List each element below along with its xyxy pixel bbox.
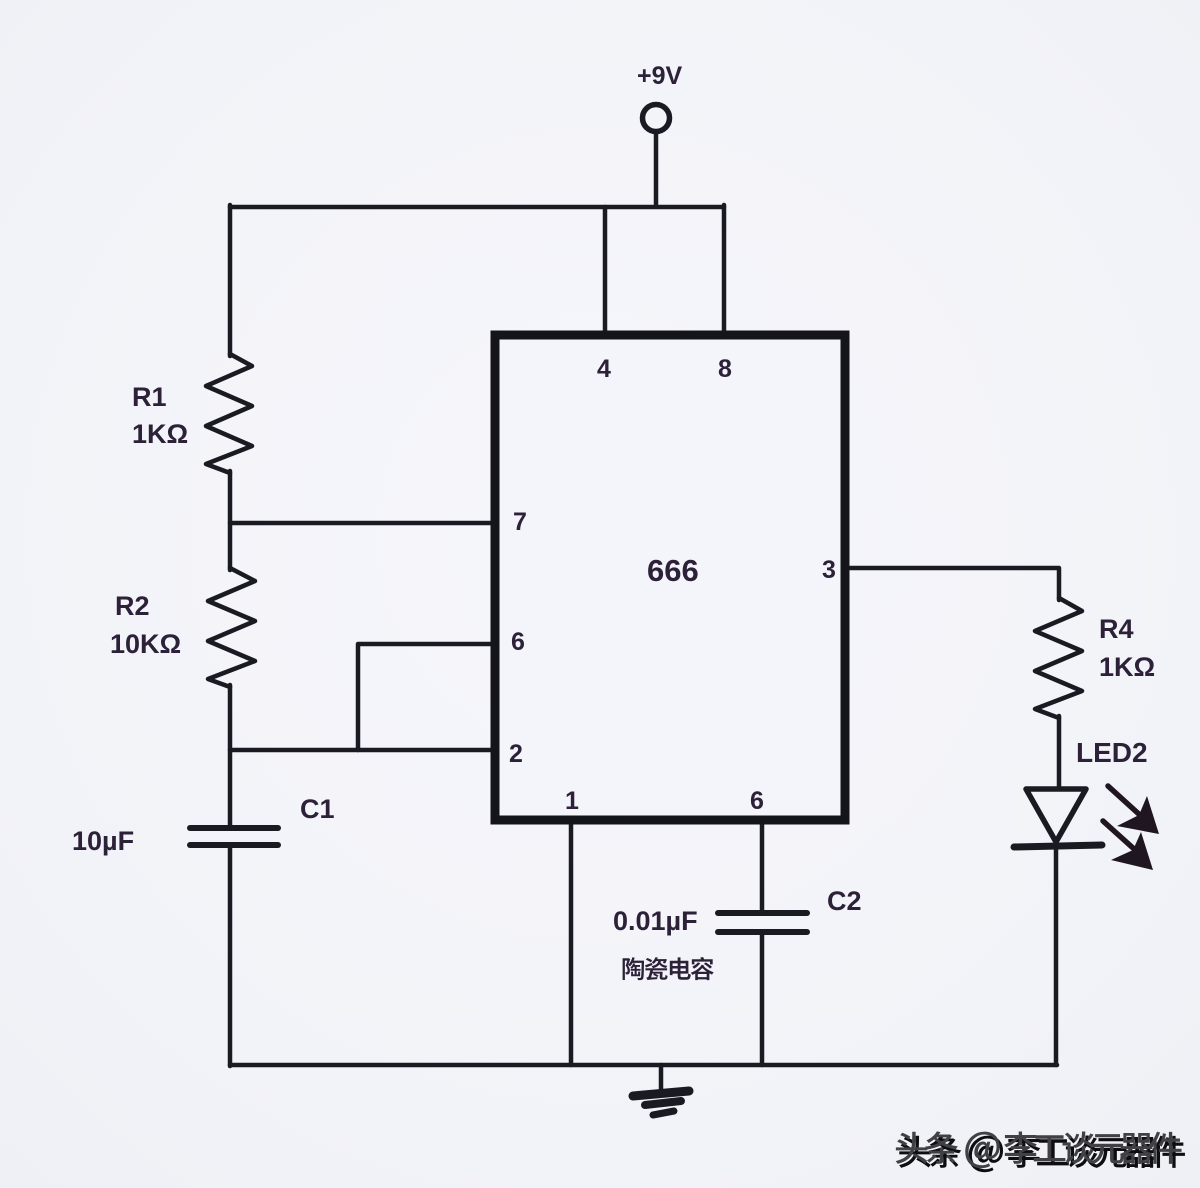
- wire pin1 stub: [569, 820, 574, 1065]
- svg-text:8: 8: [718, 355, 732, 383]
- svg-text:R1: R1: [132, 382, 167, 412]
- label ceramic capacitor: [623, 957, 714, 980]
- LED light arrow heads: [1111, 796, 1159, 870]
- svg-text:C2: C2: [827, 886, 862, 916]
- svg-text:10KΩ: 10KΩ: [110, 629, 181, 659]
- LED2 cathode bar: [1014, 845, 1102, 847]
- svg-text:1KΩ: 1KΩ: [132, 419, 188, 449]
- svg-text:7: 7: [513, 508, 527, 536]
- svg-text:1: 1: [565, 787, 579, 815]
- resistor R1: [206, 354, 252, 473]
- wire left vertical upper: [228, 205, 233, 356]
- wire to pin 7: [230, 521, 493, 526]
- op-amp / timer IC U1 555 body: [495, 335, 845, 820]
- wire C1 to bottom rail: [228, 847, 233, 1066]
- capacitor C2: [718, 910, 807, 916]
- wire pin3 out: [846, 568, 1059, 600]
- svg-text:+9V: +9V: [637, 62, 683, 90]
- resistor R4: [1035, 598, 1082, 718]
- wire bottom rail: [230, 1063, 1057, 1068]
- svg-text:R2: R2: [115, 591, 150, 621]
- wire to pin 2: [230, 748, 493, 753]
- wire C2 to bottom rail: [760, 933, 765, 1065]
- svg-text:4: 4: [597, 355, 611, 383]
- wire pin 6 stub: [358, 644, 493, 750]
- wire top rail: [230, 205, 724, 210]
- svg-text:3: 3: [822, 556, 836, 584]
- svg-text:R4: R4: [1099, 614, 1134, 644]
- wire +9V to top rail: [654, 132, 659, 206]
- wire pin4 stub: [603, 207, 608, 334]
- ground: [659, 1065, 664, 1091]
- +9V terminal: [643, 105, 670, 132]
- wire pin8 stub: [722, 205, 727, 334]
- svg-text:10µF: 10µF: [72, 826, 134, 856]
- wire pin5 stub: [760, 820, 765, 912]
- svg-text:1KΩ: 1KΩ: [1099, 652, 1155, 682]
- svg-text:C1: C1: [300, 794, 335, 824]
- wire R1 to R2: [228, 471, 233, 570]
- LED2 triangle: [1026, 789, 1086, 842]
- LED light arrows: [1103, 786, 1141, 848]
- capacitor C1: [190, 825, 278, 831]
- svg-text:6: 6: [511, 628, 525, 656]
- resistor R2: [208, 568, 255, 687]
- svg-text:2: 2: [509, 740, 523, 768]
- watermark 头条 @李工谈元器件: [896, 1131, 1185, 1172]
- svg-text:0.01µF: 0.01µF: [613, 906, 698, 936]
- wire R2 to C1: [228, 685, 233, 827]
- wire LED to bottom rail: [1054, 848, 1059, 1065]
- svg-text:666: 666: [647, 553, 699, 588]
- svg-text:6: 6: [750, 787, 764, 815]
- svg-text:LED2: LED2: [1076, 737, 1148, 768]
- wire R4 to LED: [1057, 716, 1062, 789]
